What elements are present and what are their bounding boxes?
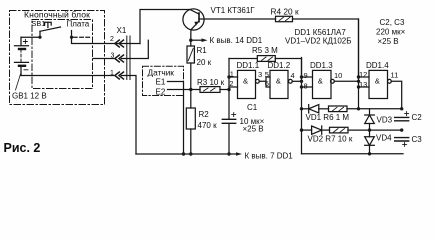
diode VD3	[369, 109, 371, 115]
svg-text:VD3: VD3	[377, 116, 393, 125]
resistor R6	[329, 106, 348, 112]
svg-text:VD1 R6 1 М: VD1 R6 1 М	[306, 113, 350, 122]
plate dashed connection	[74, 36, 92, 38]
svg-text:DD1.3: DD1.3	[310, 61, 333, 70]
capacitor C3	[395, 138, 409, 141]
top rail to VT1 emitter	[140, 10, 190, 44]
switch SB1	[38, 36, 41, 39]
gate DD1.1	[238, 70, 256, 98]
feed vertical DD1.3 (node A)	[301, 58, 303, 154]
resistor R1	[190, 40, 192, 46]
svg-text:Плата: Плата	[67, 20, 90, 29]
svg-text:5: 5	[265, 70, 269, 79]
transistor VT1	[183, 9, 204, 30]
right ground rail	[302, 153, 404, 155]
svg-text:Е1: Е1	[156, 78, 166, 87]
svg-text:К выв. 7 DD1: К выв. 7 DD1	[245, 151, 294, 160]
svg-text:1: 1	[110, 70, 114, 77]
svg-text:DD1.1: DD1.1	[237, 61, 260, 70]
resistor R3	[200, 87, 220, 93]
svg-text:&: &	[318, 77, 323, 86]
battery GB1	[15, 37, 29, 75]
wire battery+ to SB1	[21, 36, 40, 38]
svg-text:4: 4	[291, 71, 295, 80]
connector X1 body lines	[127, 36, 130, 80]
svg-text:GB1 12 В: GB1 12 В	[12, 91, 47, 100]
arrow К выв. 14 DD1	[191, 39, 202, 41]
svg-text:DD1.4: DD1.4	[366, 61, 389, 70]
svg-text:X1: X1	[117, 26, 127, 35]
gate DD1.4	[369, 70, 388, 98]
svg-text:К выв. 14 DD1: К выв. 14 DD1	[210, 36, 263, 45]
capacitor C2	[395, 117, 409, 120]
svg-text:20 к: 20 к	[197, 58, 212, 67]
svg-text:C1: C1	[247, 103, 258, 112]
svg-text:×25 В: ×25 В	[378, 37, 399, 46]
diode VD4	[369, 130, 371, 137]
svg-text:3: 3	[111, 52, 115, 59]
svg-text:VT1 КТ361Г: VT1 КТ361Г	[211, 6, 256, 15]
svg-text:C3: C3	[412, 135, 423, 144]
svg-text:3: 3	[258, 70, 262, 79]
svg-text:13: 13	[359, 80, 367, 89]
svg-text:9: 9	[304, 71, 308, 80]
electrode E2 wire	[168, 89, 201, 91]
resistor R2	[190, 90, 192, 109]
svg-text:C2: C2	[412, 113, 423, 122]
wire to X1 pin 2	[72, 37, 141, 43]
svg-text:6: 6	[265, 79, 269, 88]
left ground rail with arrow К выв. 7 DD1	[136, 153, 236, 155]
vertical feed DD1.1 inputs	[228, 59, 230, 120]
wire to X1 pin 3 (from plate box)	[93, 58, 114, 60]
capacitor C1	[222, 119, 235, 123]
svg-text:1: 1	[230, 70, 234, 79]
svg-text:VD4: VD4	[376, 133, 392, 142]
svg-text:VD2 R7 10 к: VD2 R7 10 к	[308, 135, 353, 144]
svg-text:220 мк×: 220 мк×	[376, 28, 406, 37]
sensor box Датчик	[143, 66, 184, 95]
svg-text:Датчик: Датчик	[148, 67, 175, 77]
node under VT1	[189, 39, 192, 42]
GB1 leader line	[16, 74, 21, 90]
connector X1 pin 2	[115, 40, 124, 47]
diode VD1 with resistor R6 line H1	[300, 107, 303, 110]
resistor R4	[276, 16, 293, 21]
plate (Плата) dashed box	[32, 20, 93, 89]
svg-text:VD1–VD2 КД102Б: VD1–VD2 КД102Б	[285, 36, 351, 45]
svg-text:&: &	[375, 77, 380, 86]
svg-text:11: 11	[391, 71, 399, 80]
resistor R5	[229, 58, 257, 60]
svg-text:12: 12	[359, 70, 367, 79]
svg-text:R4 20 к: R4 20 к	[271, 6, 299, 16]
svg-text:C2, C3: C2, C3	[380, 18, 405, 27]
svg-text:8: 8	[304, 81, 308, 90]
svg-text:×25 В: ×25 В	[243, 124, 264, 133]
svg-text:R2: R2	[199, 110, 210, 119]
gate DD1.2	[270, 70, 288, 98]
node R3 to DD1.1 vertical	[227, 88, 230, 91]
svg-text:SB1: SB1	[32, 19, 46, 28]
connector X1 pin 1	[115, 72, 124, 79]
svg-text:DD1.2: DD1.2	[268, 61, 291, 70]
button block enclosure box	[10, 11, 105, 105]
electrode E1 wire	[168, 82, 184, 155]
svg-text:Рис. 2: Рис. 2	[4, 141, 41, 155]
node: SB1 right / plate junction	[70, 36, 73, 39]
svg-text:2: 2	[229, 79, 233, 88]
svg-text:&: &	[243, 77, 248, 86]
resistor R7	[330, 127, 349, 133]
diode VD2 with resistor R7 line H2	[300, 128, 303, 131]
svg-text:Е2: Е2	[156, 87, 166, 96]
gate DD1.3	[313, 70, 332, 98]
svg-text:R3 10 к: R3 10 к	[197, 78, 225, 87]
svg-text:10: 10	[334, 71, 342, 80]
feed vertical DD1.4 (node B)	[358, 19, 360, 109]
wire to X1 pin 1 (battery minus)	[21, 75, 114, 77]
svg-text:R5 3 М: R5 3 М	[252, 46, 278, 55]
connector X1 pin 3	[115, 55, 124, 62]
svg-text:470 к: 470 к	[198, 121, 218, 130]
svg-text:&: &	[276, 77, 281, 86]
svg-text:2: 2	[110, 36, 114, 43]
svg-text:R1: R1	[197, 46, 208, 55]
node R1/E2/R3	[189, 88, 192, 91]
